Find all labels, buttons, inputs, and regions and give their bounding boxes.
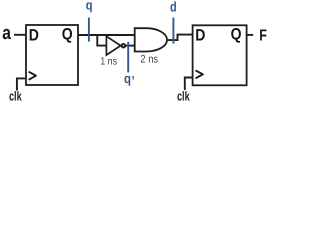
- svg-text:2 ns: 2 ns: [140, 54, 158, 66]
- svg-text:a: a: [2, 23, 11, 44]
- svg-text:d: d: [170, 0, 177, 15]
- svg-text:1 ns: 1 ns: [100, 56, 117, 68]
- svg-text:q: q: [86, 0, 93, 13]
- svg-text:clk: clk: [177, 89, 190, 104]
- svg-text:D: D: [195, 26, 205, 44]
- svg-text:Q: Q: [62, 26, 73, 44]
- svg-text:F: F: [259, 28, 267, 45]
- svg-text:clk: clk: [9, 89, 22, 104]
- svg-text:D: D: [29, 26, 39, 44]
- svg-text:q’: q’: [124, 71, 135, 88]
- svg-text:Q: Q: [231, 26, 242, 44]
